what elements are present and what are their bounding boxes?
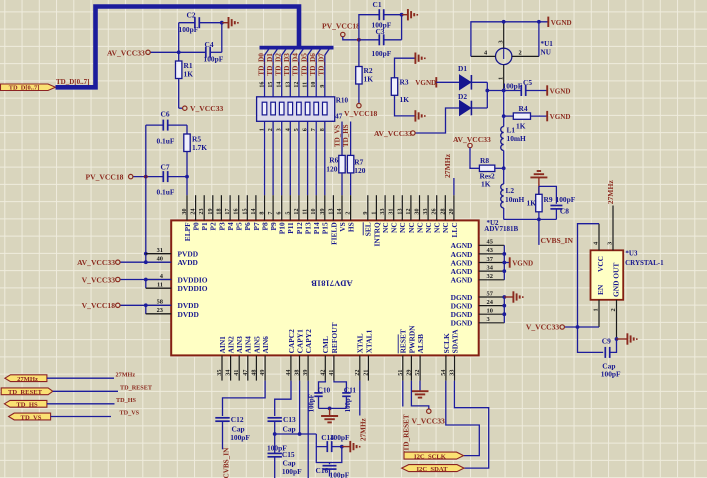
- resistor R9: [536, 194, 542, 212]
- svg-text:100pF: 100pF: [282, 467, 302, 476]
- pin 7 P9 U2 top: [272, 195, 274, 220]
- pin 40 AVDD U2 left: [146, 261, 171, 263]
- junction DGND 24: [502, 304, 506, 308]
- wire node4 to C14: [316, 434, 327, 447]
- wire CAPC2 to C13: [275, 381, 291, 416]
- bus entry TD_D5: [308, 49, 313, 56]
- pin 24 DGND U2 right: [479, 305, 505, 307]
- pin 8 P8 U2 top: [264, 195, 266, 220]
- svg-text:CVBS_IN: CVBS_IN: [541, 236, 574, 245]
- wire R7 to HS: [350, 173, 352, 195]
- svg-text:33: 33: [423, 209, 429, 215]
- wire D2 cathode: [471, 107, 487, 109]
- pin 1 U1: [503, 65, 505, 91]
- port TD_RESET: [1, 388, 53, 395]
- pin 10 P14 U2 top: [315, 195, 317, 220]
- svg-text:2: 2: [519, 49, 522, 56]
- junction DVDD: [144, 303, 148, 307]
- wire C5 to VGND: [526, 90, 547, 92]
- IC U2 ADV7181B body: [171, 220, 479, 355]
- svg-text:57: 57: [487, 290, 494, 297]
- svg-text:V_VCC33: V_VCC33: [526, 323, 560, 332]
- pin 45 AGND U2 right: [479, 244, 505, 246]
- wire TD_D5: [307, 55, 309, 195]
- wire node1 to C5: [504, 90, 522, 92]
- svg-text:R6: R6: [329, 156, 338, 165]
- svg-text:23: 23: [157, 307, 163, 314]
- wire AGND to VGND: [504, 262, 509, 264]
- ground ALSB: [412, 390, 429, 392]
- bus TD_D: [56, 7, 300, 88]
- svg-text:1K: 1K: [364, 74, 374, 83]
- ground crystal: [626, 333, 628, 344]
- wire R8 to node3: [495, 167, 504, 169]
- wire C9 right: [610, 339, 617, 352]
- power port VGND 1: [547, 17, 549, 27]
- svg-text:R9: R9: [544, 195, 553, 204]
- resistor R2: [356, 67, 362, 85]
- pin 22 XTAL U2 bottom: [359, 355, 361, 380]
- power port PV_VCC18 left: [129, 174, 133, 178]
- port I2C_SDAT: [402, 465, 464, 472]
- wire SDATA: [454, 381, 488, 469]
- bus entry TD_D0: [265, 49, 270, 56]
- wire node3 to L2: [503, 168, 505, 184]
- svg-text:C3: C3: [376, 27, 385, 36]
- wire R3 top: [395, 58, 416, 78]
- svg-text:39: 39: [320, 209, 326, 215]
- svg-text:C4: C4: [205, 40, 214, 49]
- resistor R10 element 2: [271, 102, 276, 115]
- svg-text:100pF: 100pF: [330, 470, 350, 478]
- svg-text:13: 13: [285, 82, 291, 88]
- ground C2: [228, 17, 230, 28]
- wire LLC 27MHz: [453, 178, 455, 195]
- wire node1-node2: [503, 91, 505, 117]
- wire C12 down: [222, 421, 224, 449]
- svg-text:C12: C12: [231, 415, 244, 424]
- svg-text:12: 12: [294, 82, 300, 88]
- pin 35 AIN1 U2 bottom: [221, 355, 223, 380]
- pin 24 P0 U2 top: [195, 195, 197, 220]
- svg-text:V_VCC33: V_VCC33: [190, 104, 224, 113]
- svg-text:C8: C8: [560, 206, 569, 215]
- wire TD_D3: [289, 55, 291, 195]
- wire V_VCC33 crystal: [564, 326, 599, 328]
- wire R9 to rail: [538, 212, 540, 220]
- bus entry TD_D4: [299, 49, 304, 56]
- svg-text:41: 41: [329, 370, 335, 376]
- wire CML to C10: [319, 381, 326, 393]
- wire cathode tie: [486, 82, 488, 108]
- wire ALSB gnd: [419, 381, 421, 392]
- wire C2 row: [179, 22, 195, 24]
- pin 31 PVDD U2 left: [146, 253, 171, 255]
- svg-text:HS: HS: [347, 222, 356, 232]
- power port AV_VCC33 top: [146, 50, 150, 54]
- svg-text:REFOUT: REFOUT: [330, 323, 339, 354]
- svg-text:8: 8: [320, 128, 326, 131]
- pin 34 AIN2 U2 bottom: [230, 355, 232, 380]
- wire crystal loop: [578, 224, 604, 353]
- pin 4 U1: [471, 55, 496, 57]
- ground C14: [349, 441, 351, 452]
- junction DGND 10: [502, 312, 506, 316]
- svg-text:TD_D7: TD_D7: [317, 53, 326, 76]
- wire C11 down: [345, 396, 347, 408]
- svg-text:31: 31: [389, 209, 395, 215]
- junction node1: [502, 89, 506, 93]
- wire C16 loop: [316, 447, 342, 463]
- svg-text:100pF: 100pF: [204, 55, 224, 64]
- svg-text:AGND: AGND: [451, 276, 473, 285]
- svg-text:47: 47: [335, 113, 343, 121]
- wire 27MHz: [47, 377, 114, 379]
- wire D1 cathode: [471, 81, 487, 83]
- svg-text:27MHz: 27MHz: [443, 153, 452, 178]
- junction U1 top: [502, 20, 506, 24]
- svg-text:TD_RESET: TD_RESET: [402, 414, 410, 451]
- pin 26 NC U2 top: [436, 195, 438, 220]
- inductor L2: [501, 184, 504, 208]
- svg-text:10: 10: [311, 82, 317, 88]
- svg-text:V_VCC33: V_VCC33: [412, 416, 446, 425]
- svg-text:11: 11: [303, 209, 309, 215]
- resistor R10 element 5: [297, 102, 302, 115]
- power port V_VCC18 (DVDD): [116, 303, 120, 307]
- crystal U3 body: [591, 250, 624, 299]
- svg-text:Cap: Cap: [283, 424, 296, 433]
- junction AGND 37: [502, 261, 506, 265]
- diode D2: [460, 101, 471, 116]
- bus entry TD_D1: [273, 49, 278, 56]
- resistor R1: [176, 61, 182, 79]
- svg-text:16: 16: [260, 82, 266, 88]
- pin 17 P4 U2 top: [229, 195, 231, 220]
- svg-text:23: 23: [199, 209, 205, 215]
- svg-text:100pF: 100pF: [330, 433, 350, 442]
- svg-text:TD_D4: TD_D4: [291, 53, 300, 76]
- wire CAPY2 down: [307, 381, 309, 478]
- svg-text:11: 11: [157, 281, 163, 288]
- pin 14 P7 U2 top: [255, 195, 257, 220]
- capacitor C16: [323, 465, 337, 467]
- pin 48 AIN5 U2 bottom: [255, 355, 257, 380]
- capacitor C6: [162, 120, 164, 131]
- svg-text:27MHz: 27MHz: [17, 376, 38, 383]
- svg-text:TD_VS: TD_VS: [333, 125, 341, 147]
- svg-text:30: 30: [415, 209, 421, 215]
- svg-text:51: 51: [398, 370, 404, 376]
- pin 2 U1: [512, 55, 539, 57]
- svg-text:45: 45: [487, 239, 493, 246]
- junction DGND 57: [502, 295, 506, 299]
- wire RESET: [402, 381, 404, 407]
- svg-text:100pF: 100pF: [179, 25, 199, 34]
- svg-text:17: 17: [225, 209, 231, 215]
- bus entry TD_D2: [282, 49, 287, 56]
- svg-text:INTRQ: INTRQ: [372, 222, 381, 246]
- svg-text:XTAL1: XTAL1: [364, 329, 373, 353]
- pin 3 DGND U2 right: [479, 322, 505, 324]
- pin 3 U3: [612, 206, 614, 251]
- pin 2 U3: [616, 300, 618, 339]
- svg-text:P12: P12: [295, 222, 304, 234]
- svg-text:TD_RESET: TD_RESET: [8, 389, 43, 396]
- svg-text:2: 2: [346, 212, 352, 215]
- junction C1-gnd: [400, 13, 404, 17]
- svg-text:D2: D2: [458, 92, 467, 101]
- svg-text:CVBS_IN: CVBS_IN: [222, 447, 230, 478]
- svg-text:11: 11: [303, 82, 309, 88]
- capacitor C3: [378, 34, 380, 45]
- power port V_VCC33 (crystal): [560, 325, 564, 329]
- svg-text:15: 15: [268, 82, 274, 88]
- capacitor C11: [342, 392, 350, 394]
- wire AV_VCC33 to R8: [470, 148, 479, 169]
- svg-text:32: 32: [487, 273, 493, 280]
- pin 49 AIN6 U2 bottom: [264, 355, 266, 380]
- svg-text:AGND: AGND: [451, 267, 473, 276]
- junction C2-gnd: [220, 21, 224, 25]
- inductor L1: [501, 127, 504, 151]
- wire AGND tie: [503, 245, 505, 279]
- svg-text:52: 52: [415, 370, 421, 376]
- svg-text:D1: D1: [458, 64, 467, 73]
- wire TD_HS: [47, 403, 115, 405]
- power port V_VCC33 (PWRDN): [427, 409, 431, 413]
- svg-text:Cap: Cap: [232, 424, 245, 433]
- ground refout: [321, 415, 338, 417]
- svg-text:27MHz: 27MHz: [116, 371, 136, 378]
- svg-text:0.1uF: 0.1uF: [157, 188, 175, 197]
- port 27MHz: [5, 375, 47, 382]
- svg-text:10mH: 10mH: [507, 134, 527, 143]
- svg-text:2: 2: [610, 308, 617, 311]
- wire PWRDN: [411, 381, 428, 409]
- wire C1 right: [384, 14, 402, 16]
- junction PVDD: [144, 252, 148, 256]
- pin 34 AGND U2 right: [479, 270, 505, 272]
- svg-text:13: 13: [328, 209, 334, 215]
- svg-text:29: 29: [406, 370, 412, 376]
- resistor R10 element 3: [279, 102, 284, 115]
- port TD_HS: [4, 400, 47, 407]
- pin 43 AGND U2 right: [479, 253, 505, 255]
- svg-text:PWRDN: PWRDN: [407, 325, 416, 354]
- wire CVBS_IN: [538, 219, 540, 245]
- svg-text:3: 3: [277, 128, 283, 131]
- junction C3 node: [357, 38, 361, 42]
- resistor R5: [184, 134, 190, 152]
- pin 30 NC U2 top: [419, 195, 421, 220]
- svg-text:EN: EN: [596, 284, 605, 295]
- wire DVDDIO bracket: [145, 280, 147, 289]
- svg-text:I2C_SDAT: I2C_SDAT: [416, 466, 448, 473]
- wire C4 row: [179, 51, 206, 53]
- svg-text:V_VCC33: V_VCC33: [82, 275, 116, 284]
- ground R3 top: [414, 53, 416, 64]
- svg-text:V_VCC18: V_VCC18: [82, 301, 116, 310]
- wire gnd stub C1: [402, 14, 408, 16]
- svg-text:L1: L1: [507, 125, 516, 134]
- wire TD_D2: [281, 55, 283, 195]
- svg-text:GND OUT: GND OUT: [611, 263, 620, 297]
- wire AV_VCC33 to C2/C4: [150, 51, 179, 53]
- resistor R10 element 6: [305, 102, 310, 115]
- capacitor C8: [550, 205, 562, 207]
- resistor R10 element 4: [288, 102, 293, 115]
- junction U1 right: [537, 20, 541, 24]
- svg-text:VGND: VGND: [550, 113, 571, 121]
- svg-text:TD_RESET: TD_RESET: [120, 385, 153, 392]
- svg-text:C5: C5: [523, 78, 532, 87]
- pin 9 SEL U2 top: [367, 195, 369, 220]
- svg-text:33: 33: [450, 370, 456, 376]
- svg-text:15: 15: [242, 209, 248, 215]
- port I2C_SCLK: [404, 452, 464, 459]
- svg-text:AIN5: AIN5: [252, 336, 261, 354]
- junction node4: [273, 432, 277, 436]
- pin 57 DGND U2 right: [479, 296, 505, 298]
- wire tie to node1: [487, 90, 503, 92]
- resistor R10 element 7: [314, 102, 319, 115]
- svg-text:6: 6: [277, 212, 283, 215]
- power port V_VCC18: [357, 103, 361, 107]
- bus entry TD_D3: [290, 49, 295, 56]
- svg-text:*U3: *U3: [625, 249, 638, 257]
- pin 4 U3: [598, 224, 600, 251]
- svg-text:27MHz: 27MHz: [606, 180, 615, 205]
- svg-text:1K: 1K: [184, 70, 194, 79]
- junction refout: [328, 407, 332, 411]
- svg-text:34: 34: [226, 370, 232, 376]
- ground DGND: [512, 291, 514, 302]
- wire TD_D7: [324, 55, 326, 195]
- svg-text:C1: C1: [373, 0, 382, 9]
- svg-text:21: 21: [363, 370, 369, 376]
- svg-text:5: 5: [294, 128, 300, 131]
- junction PV_VCC18: [144, 175, 148, 179]
- junction DVDDIO: [144, 278, 148, 282]
- pin 12 P12 U2 top: [298, 195, 300, 220]
- pin 10 DGND U2 right: [479, 313, 505, 315]
- svg-text:C6: C6: [161, 109, 170, 118]
- wire C16 down: [329, 469, 331, 476]
- svg-text:TD_VS: TD_VS: [120, 410, 140, 417]
- svg-text:1K: 1K: [516, 121, 526, 130]
- pin 37 AGND U2 right: [479, 262, 505, 264]
- capacitor C15: [268, 452, 282, 454]
- wire bottom rail: [504, 218, 557, 220]
- wire TD_D6: [315, 55, 317, 195]
- svg-text:R3: R3: [400, 77, 409, 86]
- svg-text:14: 14: [337, 209, 343, 215]
- junction AGND 43: [502, 252, 506, 256]
- svg-text:1: 1: [260, 128, 266, 131]
- bus entry TD_D7: [325, 49, 330, 56]
- pin 23 DVDD U2 left: [146, 313, 171, 315]
- svg-text:38: 38: [295, 370, 301, 376]
- wire R2 to V_VCC18: [358, 84, 360, 103]
- capacitor C10: [314, 392, 322, 394]
- svg-text:AV_VCC33: AV_VCC33: [374, 129, 412, 138]
- wire C3 row: [359, 39, 379, 41]
- power port V_VCC33 (DVDDIO): [116, 277, 120, 281]
- pin 16 P5 U2 top: [238, 195, 240, 220]
- svg-text:NU: NU: [541, 48, 552, 56]
- junction node2: [502, 114, 506, 118]
- wire CAPY1 down: [299, 381, 301, 434]
- connector U1: [496, 48, 512, 64]
- svg-text:LLC: LLC: [450, 222, 459, 237]
- svg-text:120: 120: [326, 164, 337, 173]
- pin 11 DVDDIO U2 left: [146, 287, 171, 289]
- svg-text:TD_HS: TD_HS: [116, 397, 137, 404]
- svg-text:10: 10: [311, 209, 317, 215]
- svg-text:PV_VCC18: PV_VCC18: [86, 173, 124, 182]
- wire PV_VCC18 row: [133, 176, 163, 178]
- pin 41 REFOUT U2 bottom: [333, 355, 335, 380]
- power port VGND (AGND): [509, 257, 511, 267]
- svg-text:ADV7181B: ADV7181B: [484, 225, 518, 233]
- svg-text:8: 8: [260, 212, 266, 215]
- svg-text:AV_VCC33: AV_VCC33: [453, 135, 491, 144]
- junction AVDD: [144, 260, 148, 264]
- wire node2 to L1: [503, 116, 505, 126]
- svg-text:DGND: DGND: [451, 319, 473, 328]
- svg-text:100pF: 100pF: [503, 82, 523, 91]
- wire C10 down: [318, 396, 320, 408]
- svg-text:1.7K: 1.7K: [192, 143, 207, 152]
- svg-text:VGND: VGND: [512, 259, 533, 267]
- svg-text:SDATA: SDATA: [450, 329, 459, 354]
- capacitor C5: [520, 85, 522, 96]
- wire gnd stem: [538, 177, 540, 194]
- svg-text:3: 3: [607, 242, 614, 245]
- resistor R3: [391, 78, 397, 96]
- svg-text:1K: 1K: [400, 95, 410, 104]
- svg-text:1K: 1K: [481, 180, 491, 189]
- svg-text:CRYSTAL-1: CRYSTAL-1: [625, 259, 664, 267]
- svg-text:12: 12: [294, 209, 300, 215]
- pin 30 ELPF U2 top: [186, 195, 188, 220]
- pin 47 AIN4 U2 bottom: [247, 355, 249, 380]
- wire R1 to V_VCC33: [178, 79, 180, 109]
- junction CAPY1: [298, 432, 302, 436]
- wire R3 bottom: [395, 95, 416, 116]
- pin 51 RESET U2 bottom: [402, 355, 404, 380]
- wire gnd stub crystal: [617, 338, 628, 340]
- wire L2 to rail: [503, 208, 505, 219]
- svg-text:DVDDIO: DVDDIO: [178, 284, 208, 293]
- svg-text:47: 47: [243, 370, 249, 376]
- svg-text:5: 5: [285, 212, 291, 215]
- svg-text:13: 13: [397, 209, 403, 215]
- svg-text:26: 26: [432, 209, 438, 215]
- svg-text:1: 1: [497, 77, 504, 80]
- pin 41 AIN3 U2 bottom: [238, 355, 240, 380]
- svg-text:35: 35: [217, 370, 223, 376]
- pin 29 PWRDN U2 bottom: [410, 355, 412, 380]
- wire SCLK: [446, 381, 480, 456]
- wire stem navy: [538, 186, 540, 194]
- svg-text:VGND: VGND: [550, 88, 571, 96]
- svg-text:10: 10: [487, 308, 493, 315]
- svg-text:43: 43: [487, 247, 493, 254]
- svg-text:1: 1: [371, 212, 377, 215]
- junction node3: [502, 166, 506, 170]
